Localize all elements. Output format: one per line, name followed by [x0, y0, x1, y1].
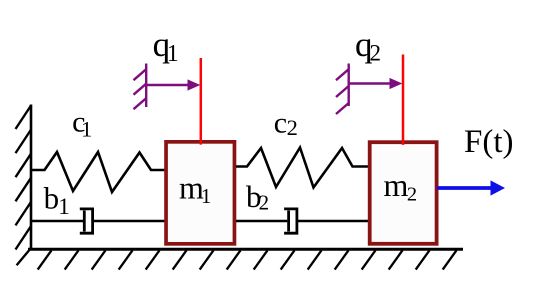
q1 fixed reference (purple hatched line) — [134, 64, 147, 110]
q2 displacement arrow — [349, 78, 403, 89]
mass m2 — [370, 142, 437, 244]
damper b1 piston plate — [83, 211, 86, 232]
damper b1 rod (wall side) — [31, 220, 83, 223]
spring c2 — [236, 148, 368, 188]
svg-text:F(t): F(t) — [464, 124, 514, 160]
ground line — [28, 248, 463, 251]
damper b2 cylinder cup — [284, 209, 297, 233]
damper b1 cylinder cup — [80, 209, 93, 233]
damper b2 rod (m1 side) — [236, 220, 287, 223]
q1 displacement arrow — [146, 79, 200, 90]
force arrow F(t) (blue) — [437, 180, 505, 195]
reference line q2 (red) — [402, 55, 405, 145]
ground hatching — [38, 250, 457, 269]
reference line q1 (red) — [200, 58, 203, 145]
q2 fixed reference (purple hatched line) — [336, 64, 349, 115]
damper b2 piston plate — [287, 211, 290, 232]
wall hatching — [16, 106, 32, 266]
damper b1 rod (mass side) — [93, 220, 165, 223]
spring c1 — [31, 152, 165, 192]
wall (left fixed support line) — [30, 105, 33, 251]
mass m1 — [166, 142, 234, 244]
damper b2 rod (m2 side) — [297, 220, 368, 223]
